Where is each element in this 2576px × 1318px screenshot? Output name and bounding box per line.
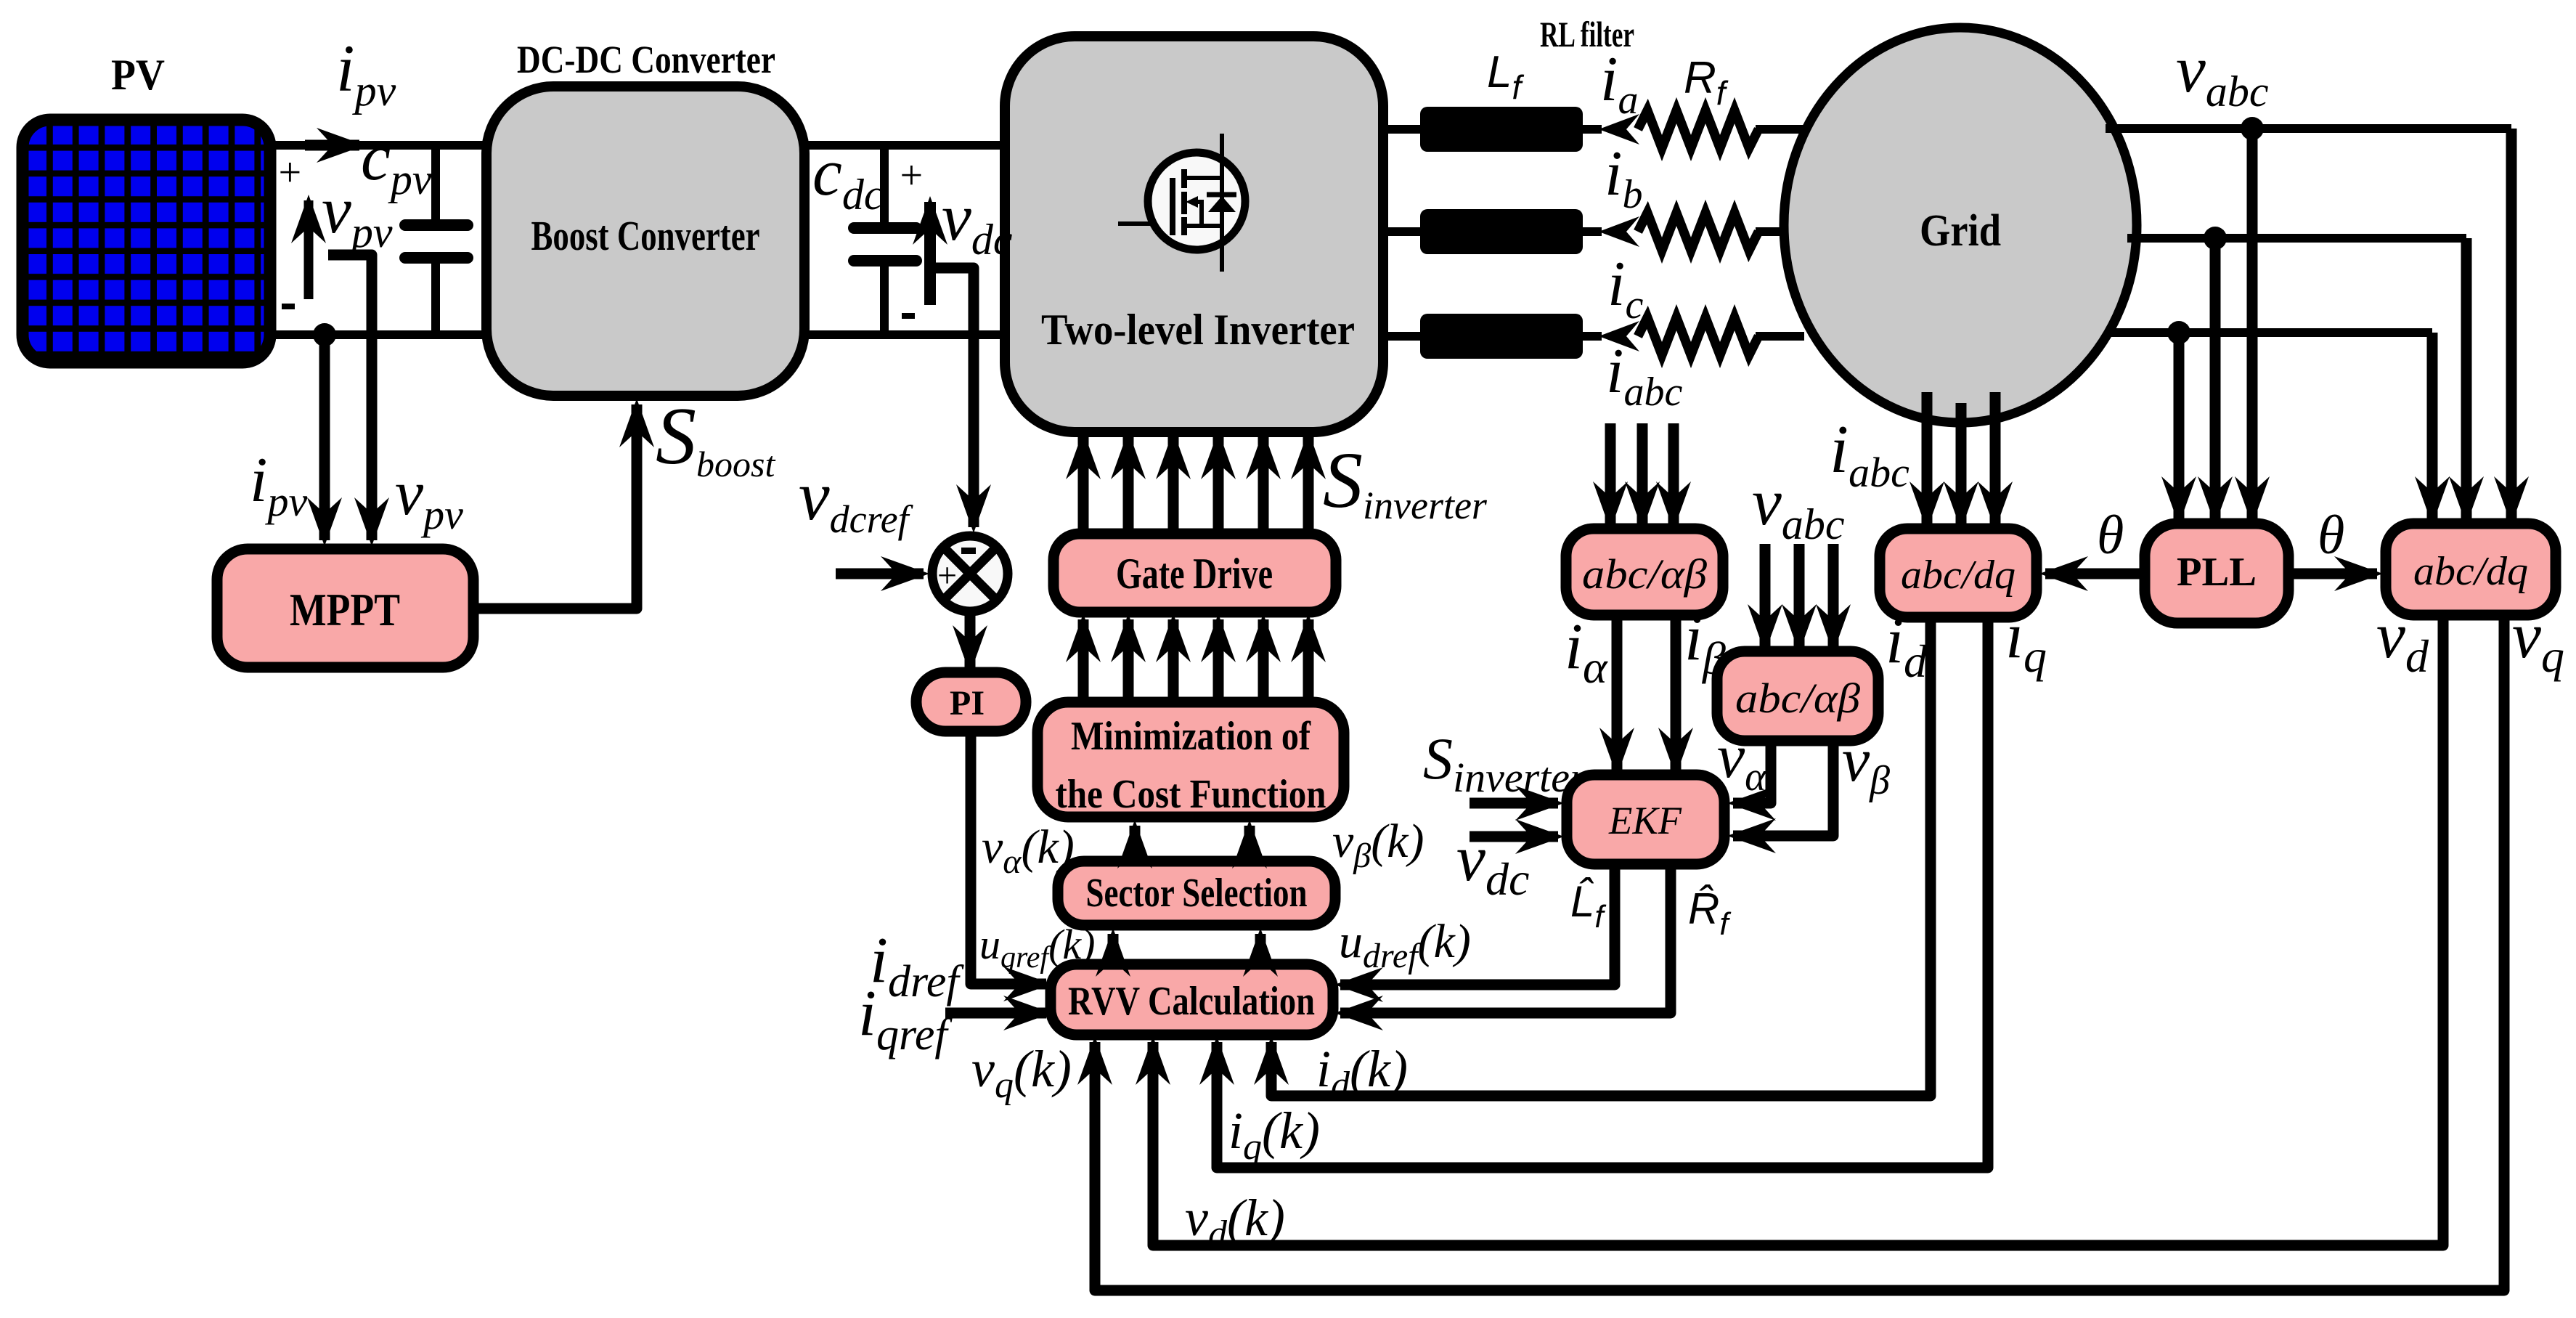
PLL block [2145,524,2288,623]
wire v_d feedback [1153,615,2443,1245]
Two-level Inverter block [1005,36,1383,432]
abc/dq left block [1880,529,2037,617]
v_pv measurement arrow [304,200,314,299]
arrows RVV to Sector Selection [1108,934,1119,964]
MPPT block [217,549,473,667]
node dot a [2241,117,2264,140]
capacitor Cpv [405,145,468,335]
capacitor Cdc [854,145,916,335]
wire summer to PI [965,611,976,668]
wires v_abc down to PLL [2247,129,2258,519]
wire v_pv sense to MPPT [328,255,372,540]
inductor Lf phase c [1420,314,1583,359]
Sector Selection block [1058,861,1335,925]
svg-text:vq(k): vq(k) [971,1040,1072,1106]
wire top DC bus PV to Boost [272,141,491,150]
wires v_abc measurement to abc/ab 2 [1760,544,1771,647]
svg-text:abc/αβ: abc/αβ [1735,675,1860,722]
svg-text:abc/dq: abc/dq [2413,549,2528,594]
wire Lf_hat EKF to RVV [1340,864,1615,985]
wire i_qref into RVV [945,1008,1046,1019]
svg-text:abc/dq: abc/dq [1901,553,2015,598]
wire v_dcref into summer [836,569,924,579]
i_pv current arrow on top bus [305,140,359,151]
resistor Rf phase b [1638,213,1758,251]
label minus summer [961,548,976,554]
svg-text:PI: PI [950,684,985,723]
svg-text:Gate Drive: Gate Drive [1116,550,1273,598]
svg-text:Two-level Inverter: Two-level Inverter [1041,306,1355,354]
wire v_q feedback [1095,615,2504,1290]
wires v_abc down to abc/dq right [2506,129,2517,519]
wire i_q feedback [1217,617,1988,1168]
Boost Converter block [486,86,804,396]
svg-text:+: + [276,150,303,195]
arrow i_a [1599,114,1639,145]
svg-text:θ: θ [2097,505,2124,566]
arrow i_c [1599,321,1639,351]
resistor Rf phase a [1638,110,1758,148]
Gate Drive block [1053,534,1336,612]
svg-text:+: + [897,153,925,198]
abc/alphabeta block 1 [1566,529,1723,615]
wire i_beta to EKF [1671,615,1682,770]
node dot c [2167,321,2190,344]
inductor Lf phase b [1420,209,1583,254]
svg-text:vα(k): vα(k) [982,821,1075,881]
arrows Sector Selection to Minimization [1130,826,1141,861]
inductor Lf phase a [1420,107,1583,152]
resistor Rf phase c [1638,317,1758,355]
svg-text:MPPT: MPPT [290,584,400,635]
PI block [916,672,1026,731]
wires i_abc measurement to abc/ab [1605,423,1616,524]
wire phase c inverter to grid [1383,332,1804,341]
svg-text:vβ(k): vβ(k) [1332,815,1424,875]
summer junction [932,536,1008,611]
RVV Calculation block [1051,964,1333,1035]
wires i_abc grid down to abc/dq [1922,392,1933,524]
v_dc measurement arrow [924,202,936,305]
wire top DC bus Boost to Inverter [804,141,1009,150]
svg-text:RVV Calculation: RVV Calculation [1068,979,1315,1024]
svg-text:abc/αβ: abc/αβ [1582,550,1707,598]
node dot on bottom bus [313,323,336,346]
EKF block [1567,775,1724,864]
gate signal arrows Gate Drive to Inverter [1083,436,1308,534]
wire Rf_hat EKF to RVV [1340,864,1671,1013]
wire i_pv sense to MPPT [319,335,330,540]
wire i_d feedback [1271,617,1931,1096]
wire grid right phase a [2106,124,2511,133]
wire bottom DC bus PV to Boost [272,330,491,339]
wire v_beta to EKF [1733,741,1833,836]
wire v_alpha to EKF [1733,741,1771,803]
arrows Minimization to Gate Drive [1083,619,1308,702]
wire S_inverter into EKF [1470,798,1558,809]
wire phase b inverter to grid [1383,227,1804,236]
svg-text:Minimization of: Minimization of [1071,714,1311,759]
svg-text:+: + [935,556,958,595]
svg-text:RL filter: RL filter [1540,14,1634,54]
wire theta PLL to abc/dq right [2288,569,2377,579]
Grid [1784,28,2137,423]
wire i_alpha to EKF [1612,615,1623,770]
PV panel [17,114,276,368]
svg-text:θ: θ [2318,505,2344,566]
wire theta PLL to abc/dq left [2045,569,2145,579]
abc/alphabeta block 2 [1717,651,1878,741]
wire grid right phase c [2106,328,2432,337]
svg-text:DC-DC Converter: DC-DC Converter [517,38,775,81]
wire grid right phase b [2127,234,2466,243]
svg-text:Boost Converter: Boost Converter [531,212,760,259]
svg-text:PV: PV [111,51,165,99]
svg-text:vd(k): vd(k) [1185,1189,1285,1255]
wire PI to RVV (i_dref) [971,731,1046,984]
wire bottom DC bus Boost to Inverter [804,330,1009,339]
label minus PV [282,304,295,309]
svg-text:Sector Selection: Sector Selection [1086,871,1308,916]
node dot b [2204,227,2227,250]
Minimization of the Cost Function block [1038,702,1344,817]
wire v_dc into EKF [1470,831,1558,842]
arrow i_b [1599,216,1639,247]
svg-text:Grid: Grid [1920,206,2001,256]
svg-text:EKF: EKF [1608,799,1682,842]
svg-text:PLL: PLL [2177,550,2257,595]
svg-text:the Cost Function: the Cost Function [1056,772,1326,817]
wire MPPT to Boost S_boost [473,404,637,609]
abc/dq right block [2386,524,2556,615]
svg-text:iq(k): iq(k) [1228,1102,1320,1168]
wire vdc sense down to summer [934,268,974,527]
label minus dc [902,313,915,319]
svg-text:id(k): id(k) [1316,1040,1408,1106]
MOSFET symbol U1 [1118,134,1245,272]
wire phase a inverter to grid [1383,125,1804,134]
